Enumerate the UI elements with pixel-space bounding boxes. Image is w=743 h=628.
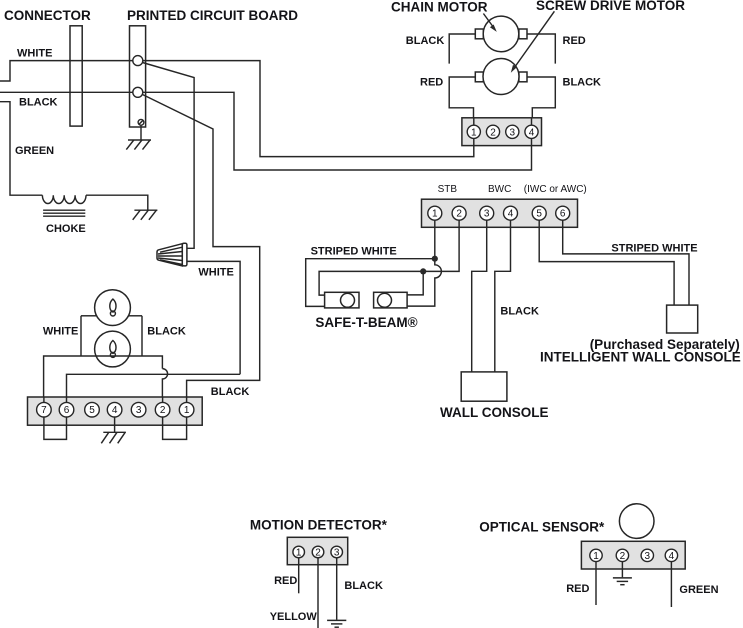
wire: screw drive motor red lead (left) — [449, 77, 475, 118]
motor M2 screw drive motor — [475, 59, 527, 95]
wire: chain motor red lead (right) — [527, 34, 555, 64]
svg-text:6: 6 — [560, 209, 566, 220]
pin 3 — [480, 206, 494, 220]
svg-text:3: 3 — [645, 551, 651, 562]
wire: hop over inner white feed, down to lamp-block pin 2 — [162, 369, 167, 397]
svg-text:3: 3 — [484, 209, 490, 220]
optical sensor terminal block — [581, 541, 685, 569]
svg-text:1: 1 — [296, 547, 302, 558]
choke CHOKE — [42, 195, 86, 216]
wire: optical sensor ground lead — [621, 569, 623, 577]
PCB terminal: white — [133, 56, 143, 66]
PCB terminal: black — [133, 87, 143, 97]
intelligent wall console — [667, 305, 698, 333]
wire: BWC pin 4 down to wall console — [495, 227, 511, 372]
svg-text:SCREW DRIVE MOTOR: SCREW DRIVE MOTOR — [536, 0, 685, 13]
wire: chain motor black lead (left) — [449, 34, 475, 64]
svg-text:RED: RED — [566, 583, 589, 595]
wire: junction A down with hop to sensor 2 right side — [407, 259, 441, 306]
pin 3 — [506, 125, 519, 138]
lamp L1 (courtesy light) — [95, 290, 131, 326]
svg-text:(IWC or AWC): (IWC or AWC) — [524, 184, 587, 195]
wire: BLACK AC line from left edge to PCB terminal — [0, 91, 133, 93]
pin 2 — [452, 206, 466, 220]
wire: WHITE AC line from left edge to PCB terminal — [0, 61, 133, 81]
svg-text:BLACK: BLACK — [563, 77, 602, 89]
safe-t-beam sensor 1 — [325, 292, 359, 308]
svg-text:STRIPED WHITE: STRIPED WHITE — [311, 246, 397, 258]
ground: earth ground below optical sensor — [613, 578, 632, 585]
svg-text:1: 1 — [471, 127, 477, 138]
pin 1 — [467, 125, 480, 138]
svg-text:BWC: BWC — [488, 184, 511, 195]
svg-text:BLACK: BLACK — [500, 306, 539, 318]
wire: motion detector yellow lead — [317, 565, 319, 628]
wire: pin 5 to intelligent wall console — [539, 227, 674, 305]
svg-text:3: 3 — [136, 405, 142, 416]
optical sensor lens — [619, 504, 654, 539]
wire: diagonal from PCB white terminal down to wire nut — [143, 63, 195, 249]
wire: white lamp bus — [80, 316, 82, 356]
printed circuit board body — [130, 26, 146, 127]
svg-text:BLACK: BLACK — [344, 580, 383, 592]
ground: chassis ground right of choke — [133, 210, 158, 220]
arrow: CHAIN MOTOR pointer — [483, 14, 496, 32]
pin 4 — [665, 549, 677, 561]
svg-text:6: 6 — [64, 405, 70, 416]
wire: optical sensor red lead — [595, 569, 597, 605]
pin 5 — [532, 206, 546, 220]
pin 2 — [616, 549, 628, 561]
pin 1 — [293, 546, 305, 558]
pin 6 — [59, 402, 74, 417]
connector (in-line plug) — [70, 26, 82, 126]
pin 3 — [131, 402, 146, 417]
svg-text:4: 4 — [508, 209, 514, 220]
wire: optical sensor green lead — [670, 569, 672, 607]
pin 2 — [312, 546, 324, 558]
svg-text:4: 4 — [669, 551, 675, 562]
wire: STB pin 1 down to junction A — [434, 227, 436, 258]
pin 1 — [590, 549, 602, 561]
junction B — [420, 268, 426, 274]
motor terminal block (4 terminals) — [462, 118, 542, 146]
wire: inner white feed to lamp-block pin 6 — [67, 374, 241, 397]
svg-text:STRIPED WHITE: STRIPED WHITE — [611, 243, 697, 255]
pin 6 — [556, 206, 570, 220]
svg-text:CHOKE: CHOKE — [46, 223, 86, 235]
svg-text:2: 2 — [620, 551, 626, 562]
svg-text:SAFE-T-BEAM®: SAFE-T-BEAM® — [315, 315, 417, 330]
svg-text:5: 5 — [89, 405, 95, 416]
lamp terminal block (7 terminals) — [28, 397, 203, 425]
svg-text:1: 1 — [184, 405, 190, 416]
pin 4 — [525, 125, 538, 138]
wire: pin 6 to intelligent wall console — [563, 227, 689, 305]
lamp L2 (courtesy light) — [95, 331, 131, 367]
motor M1 chain motor — [475, 16, 527, 52]
wire: black lamp bus — [141, 316, 143, 356]
arrow: SCREW DRIVE MOTOR pointer — [511, 11, 555, 72]
wire: lamp L1 left chord to white bus — [81, 315, 97, 317]
svg-text:RED: RED — [274, 575, 297, 587]
pin 3 — [331, 546, 343, 558]
svg-text:PRINTED CIRCUIT BOARD: PRINTED CIRCUIT BOARD — [127, 8, 298, 23]
wall console — [461, 372, 507, 401]
wire: diagonal from PCB black terminal down to lamp-block pin 1 — [143, 95, 260, 398]
svg-text:2: 2 — [160, 405, 166, 416]
wire: GREEN ground lead from left edge down to choke — [0, 102, 42, 196]
svg-text:5: 5 — [536, 209, 542, 220]
safe-t-beam sensor 2 — [374, 292, 408, 308]
svg-text:RED: RED — [563, 35, 586, 47]
pin 1 — [428, 206, 442, 220]
pin 5 — [85, 402, 100, 417]
svg-text:BLACK: BLACK — [406, 35, 445, 47]
svg-text:2: 2 — [315, 547, 321, 558]
svg-text:WHITE: WHITE — [43, 326, 78, 338]
wire: BWC pin 3 down to wall console — [472, 227, 487, 372]
svg-text:RED: RED — [420, 77, 443, 89]
svg-text:STB: STB — [438, 184, 458, 195]
svg-text:WALL CONSOLE: WALL CONSOLE — [440, 405, 549, 420]
pin 1 — [179, 402, 194, 417]
svg-text:3: 3 — [510, 127, 516, 138]
ground: earth ground below motion detector — [327, 620, 346, 627]
ground: PCB chassis ground — [126, 125, 151, 149]
wire: link lamp-block pins 2-1 — [163, 425, 187, 439]
svg-text:OPTICAL SENSOR*: OPTICAL SENSOR* — [479, 520, 605, 535]
svg-text:INTELLIGENT WALL CONSOLE: INTELLIGENT WALL CONSOLE — [540, 350, 741, 365]
wire: STB pin 2 to inner loop, sensor 1 left side — [319, 227, 459, 295]
svg-text:2: 2 — [456, 209, 462, 220]
pin 7 — [37, 402, 52, 417]
svg-text:MOTION DETECTOR*: MOTION DETECTOR* — [250, 518, 388, 533]
svg-text:YELLOW: YELLOW — [270, 611, 318, 623]
wire nut (twist-on connector) — [157, 243, 187, 266]
wire: white lead PCB white terminal to motor terminal block pin 1 — [143, 61, 474, 157]
svg-text:4: 4 — [112, 405, 118, 416]
motion detector terminal block — [287, 537, 347, 564]
svg-text:7: 7 — [41, 405, 47, 416]
svg-text:BLACK: BLACK — [211, 386, 250, 398]
svg-text:2: 2 — [490, 127, 496, 138]
wire: junction A outer loop to sensor 1 left side — [306, 259, 435, 307]
wire: motion detector red lead — [298, 565, 300, 594]
wire: choke output to chassis ground — [86, 195, 148, 210]
pin 2 — [155, 402, 170, 417]
ground: chassis ground at lamp-block pin 4 — [101, 425, 126, 443]
svg-text:3: 3 — [334, 547, 340, 558]
wire: junction B branch to sensor 2 right side — [407, 271, 423, 295]
svg-text:WHITE: WHITE — [198, 267, 233, 279]
wire: lamp common line to lamp-block pins 7 and 2 — [44, 356, 163, 397]
svg-text:CONNECTOR: CONNECTOR — [4, 8, 91, 23]
svg-text:BLACK: BLACK — [19, 97, 58, 109]
svg-text:1: 1 — [593, 551, 599, 562]
pin 3 — [641, 549, 653, 561]
svg-text:WHITE: WHITE — [17, 48, 52, 60]
junction A — [432, 256, 438, 262]
pin 4 — [107, 402, 122, 417]
svg-text:1: 1 — [432, 209, 438, 220]
PCB ground screw — [138, 119, 144, 125]
svg-text:GREEN: GREEN — [15, 145, 54, 157]
wire: motion detector black lead to earth ground — [336, 565, 338, 620]
pin 2 — [486, 125, 499, 138]
wire: link lamp-block pins 7-6 — [44, 425, 67, 439]
accessory terminal block (6 terminals) — [422, 199, 578, 227]
pin 4 — [504, 206, 518, 220]
svg-text:BLACK: BLACK — [147, 326, 186, 338]
wire: black lead PCB black terminal to motor terminal block pin 4 — [143, 92, 532, 170]
wire: screw drive motor black lead (right) — [527, 77, 555, 118]
svg-text:4: 4 — [529, 127, 535, 138]
wire: lamp L1 right chord to black bus — [128, 315, 142, 317]
svg-text:CHAIN MOTOR: CHAIN MOTOR — [391, 0, 488, 15]
svg-text:GREEN: GREEN — [679, 584, 718, 596]
wire: white lead from wire nut down to lamp feed — [187, 261, 240, 374]
